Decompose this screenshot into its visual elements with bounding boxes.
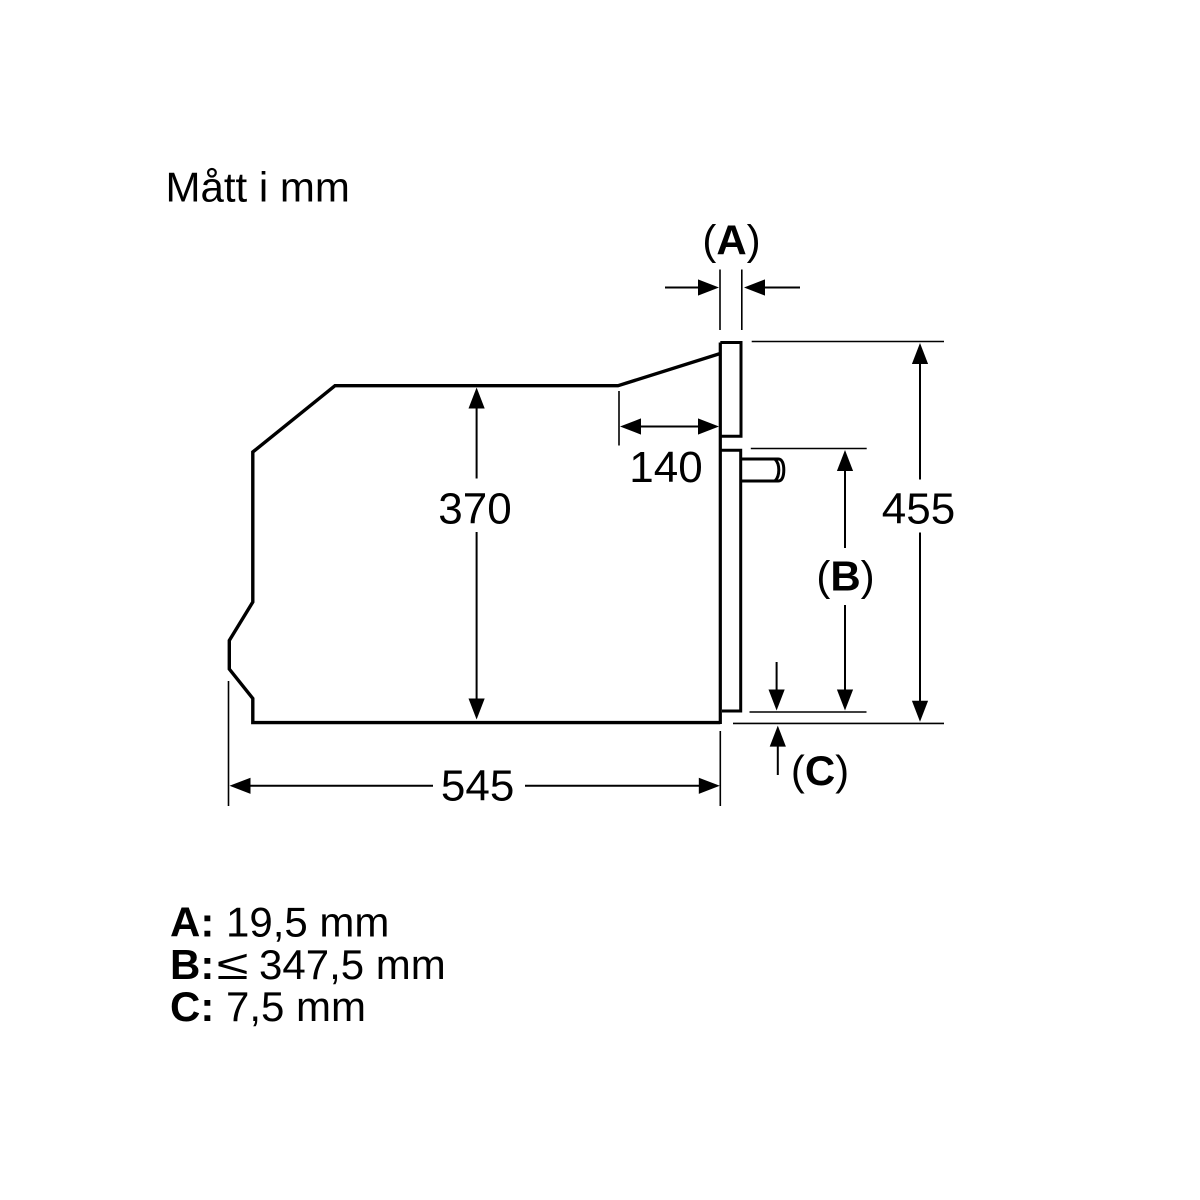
dim 455 top arrow (912, 343, 928, 364)
dim 545 left extension line (228, 681, 230, 806)
knob cap arc (775, 459, 779, 480)
dim A right extension line (741, 270, 743, 331)
dim C upper arrowhead (769, 690, 785, 711)
svg-text:≤: ≤ (217, 941, 249, 988)
dim B bottom arrow (837, 690, 853, 711)
dim 545 line right (525, 785, 701, 787)
dim 370 top arrow (469, 388, 485, 409)
svg-text:(B): (B) (816, 553, 874, 600)
dim A left arrow (665, 287, 700, 289)
dim 370 bottom arrow (469, 699, 485, 720)
dim 140 line with arrows (640, 426, 699, 428)
dim 545 line left (248, 785, 433, 787)
dim A right arrow (763, 287, 800, 289)
dim 545 right arrowhead (699, 778, 720, 794)
front panel lower segment (720, 450, 740, 711)
dim C upper arrow line (776, 662, 778, 692)
svg-text:455: 455 (882, 485, 955, 534)
dim A left extension line (719, 270, 721, 331)
svg-text:370: 370 (438, 485, 511, 534)
oven body outline (229, 354, 720, 723)
dim 455 top reference line (752, 341, 944, 343)
dim B line lower (844, 605, 846, 691)
oven front vertical line (719, 343, 722, 725)
svg-text:C: 7,5 mm: C: 7,5 mm (170, 983, 366, 1030)
dim 370 line upper (476, 406, 478, 479)
dim 455 line lower (919, 533, 921, 703)
dim 455 bottom reference line (733, 722, 944, 724)
dim 370 line lower (476, 532, 478, 701)
dim 455 bottom arrow (912, 701, 928, 722)
svg-text:B:: B: (170, 941, 214, 988)
dim C lower arrow line (777, 746, 779, 775)
svg-text:Mått i mm: Mått i mm (166, 164, 350, 211)
svg-text:347,5 mm: 347,5 mm (259, 941, 446, 988)
knob (741, 459, 784, 481)
dim B line upper (844, 469, 846, 548)
dim B top arrow (837, 450, 853, 471)
front trim upper segment (720, 343, 741, 437)
svg-text:(C): (C) (791, 747, 849, 794)
svg-text:545: 545 (441, 762, 514, 811)
dim 140 extension line (618, 391, 620, 446)
svg-text:A: 19,5 mm: A: 19,5 mm (170, 898, 389, 945)
svg-text:140: 140 (629, 443, 702, 492)
dim B bottom reference line (750, 711, 867, 713)
dim C lower arrowhead (770, 726, 786, 747)
dim 545 right extension line (719, 731, 721, 806)
dim 545 left arrowhead (230, 778, 251, 794)
svg-text:(A): (A) (702, 217, 760, 264)
dim B top reference line (751, 448, 867, 450)
dim 455 line upper (919, 362, 921, 480)
